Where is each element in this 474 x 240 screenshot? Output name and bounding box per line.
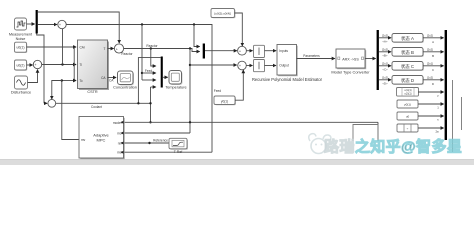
svg-text:Recursive Polynomial Model Est: Recursive Polynomial Model Estimator: [252, 77, 323, 82]
block matrix A: [392, 34, 424, 43]
block MPC: [79, 117, 125, 160]
wire u0 offsets to sum A: [235, 13, 243, 45]
wire sum output long top line: [66, 25, 212, 153]
svg-text:mo: mo: [117, 131, 122, 135]
svg-text:Reactor: Reactor: [146, 44, 158, 48]
sum reactor noise: [114, 44, 123, 53]
svg-text:A: A: [432, 40, 434, 44]
demux Demux1: [36, 10, 38, 34]
wire feed branch x142 down: [141, 25, 143, 81]
wire estimator output y65: [190, 64, 237, 66]
svg-text:<A>: <A>: [382, 39, 387, 43]
constant u0(1): [15, 42, 28, 53]
svg-text:Tc: Tc: [80, 79, 84, 83]
wire noise2 to sum CAi: [38, 24, 57, 26]
wire sum A to block: [246, 50, 252, 52]
svg-text:[2x1]: [2x1]: [427, 61, 433, 65]
labels mux2 wires: [427, 33, 434, 86]
block conv2: [254, 60, 265, 72]
wire md to MPC: [125, 151, 213, 153]
svg-text:u0(1): u0(1): [17, 46, 25, 50]
wire vertical x74 CAi-Tc link: [73, 47, 75, 81]
wire coolant detour around mux: [138, 58, 161, 104]
block Disturbance sine: [11, 76, 31, 95]
block matrix B: [392, 48, 424, 57]
mux Mux2: [445, 30, 447, 140]
mux bar2: [203, 44, 205, 59]
svg-text:[2x2]: [2x2]: [382, 48, 388, 52]
svg-text:model: model: [113, 121, 122, 125]
wire coolant sum output: [56, 102, 151, 104]
wire x142 to mux in2: [142, 72, 156, 74]
block T Ref: [169, 138, 188, 154]
wire sum to CSTR Ti: [42, 64, 76, 66]
svg-text:Feed: Feed: [145, 69, 152, 73]
svg-text:路瑞之知乎@智多星: 路瑞之知乎@智多星: [324, 138, 462, 156]
block Measurement Noise: [9, 18, 33, 41]
svg-text:[2x2]: [2x2]: [427, 47, 433, 51]
svg-text:CAi: CAi: [80, 45, 85, 49]
block c2-2: [397, 100, 418, 108]
svg-text:<C>: <C>: [382, 67, 388, 71]
watermark logo: [309, 134, 331, 154]
sum coolant: [48, 99, 56, 107]
sum CAi noise: [58, 20, 66, 28]
bottom gray band: [0, 160, 474, 166]
wire Tc branch into coolant sum top: [52, 81, 62, 99]
svg-text:C: C: [432, 68, 434, 72]
svg-text:Feed: Feed: [214, 89, 221, 93]
block Recursive Polynomial Model Estimator: [252, 45, 323, 83]
wire mux1 to temperature scope: [163, 76, 168, 78]
svg-text:T: T: [104, 47, 106, 51]
node top line x142: [141, 23, 143, 25]
wire mv trunk: [62, 81, 79, 140]
block Model Type Converter: [331, 49, 370, 74]
svg-text:Reactor: Reactor: [121, 52, 133, 56]
sum B: [238, 61, 247, 70]
wire MPC model port long line: [124, 121, 378, 123]
wires c2 blocks to mux2: [418, 92, 444, 128]
svg-text:y0(1): y0(1): [221, 100, 228, 104]
node on CAi wire: [73, 46, 75, 48]
svg-text:Model Type Converter: Model Type Converter: [331, 69, 370, 74]
wire converter to demux2: [365, 58, 376, 60]
svg-text:+: +: [35, 63, 37, 67]
svg-text:u(2)(1): u(2)(1): [404, 93, 411, 96]
wire Tc into CSTR: [62, 80, 76, 82]
wire mo vertical x190: [189, 49, 191, 134]
wire noise to demux: [27, 23, 35, 25]
svg-text:+: +: [59, 23, 61, 27]
wire conv1 to estimator: [265, 50, 276, 52]
svg-text:Ti: Ti: [80, 63, 83, 67]
svg-text:[2x2]: [2x2]: [427, 33, 433, 37]
svg-text:u0(2): u0(2): [17, 63, 25, 67]
wire noise1 top to sum1: [38, 12, 119, 39]
svg-text:Concentration: Concentration: [113, 86, 137, 90]
sum A: [238, 46, 247, 55]
wires demux2 to blocks: [379, 38, 391, 80]
wire u0(1) to CSTR CAi: [27, 46, 77, 48]
scope Concentration: [113, 71, 137, 90]
wire reactor branch to mux in1: [151, 49, 155, 67]
wire noise branch x194 to bar2: [194, 25, 199, 47]
block c2-4: [397, 124, 418, 132]
svg-text:Output: Output: [279, 63, 289, 67]
svg-text:Coolant: Coolant: [91, 105, 102, 109]
svg-text:ref: ref: [118, 141, 122, 145]
wire CSTR CA to scope: [108, 77, 117, 79]
demux Demux2: [377, 30, 379, 90]
block c2-1 display: [397, 88, 419, 97]
wire mux2 out right: [452, 80, 454, 152]
svg-text:mv: mv: [81, 138, 86, 142]
svg-text:u0: u0: [406, 115, 410, 119]
svg-text:状态 A: 状态 A: [401, 35, 414, 41]
svg-text:[u0(2);u0(4)]: [u0(2);u0(4)]: [214, 12, 231, 16]
wire CSTR T to sum: [108, 48, 114, 50]
constant u0 offsets: [211, 9, 236, 19]
svg-text:[2x1]: [2x1]: [382, 62, 388, 66]
svg-text:2a: 2a: [435, 130, 439, 134]
block bottom scope outline: [353, 125, 378, 142]
svg-text:<D>: <D>: [382, 81, 388, 85]
svg-text:[1x2]: [1x2]: [427, 75, 433, 79]
svg-text:MPC: MPC: [97, 137, 106, 142]
wire x142 to mux in3: [142, 79, 156, 81]
wire u0(2) to sum Ti: [27, 64, 33, 66]
wire noise3 down left: [37, 34, 44, 104]
node Ti branch: [61, 63, 63, 65]
svg-text:CSTR: CSTR: [87, 90, 98, 94]
svg-text:md: md: [117, 151, 122, 155]
wire disturbance to sum Ti: [28, 71, 38, 83]
svg-text:+: +: [239, 49, 241, 53]
node reactor x189: [189, 47, 191, 49]
svg-text:y0(1): y0(1): [404, 103, 411, 107]
wire sum B to block: [246, 65, 252, 67]
svg-text:状态 D: 状态 D: [401, 77, 414, 83]
svg-text:Reference: Reference: [153, 138, 168, 142]
wire conv2 to estimator: [265, 65, 276, 67]
svg-text:Temperature: Temperature: [165, 86, 186, 90]
svg-text:B: B: [432, 54, 434, 58]
wire mux2 out right 2: [461, 97, 463, 130]
wire ref to MPC: [125, 142, 170, 144]
wire y0 to sum B: [235, 71, 243, 100]
mux Mux1: [161, 57, 163, 88]
svg-text:Disturbance: Disturbance: [11, 91, 31, 95]
svg-text:+: +: [239, 64, 241, 68]
svg-text:Parameters: Parameters: [303, 54, 320, 58]
constant u0(2): [15, 60, 28, 71]
scope Temperature: [165, 71, 186, 90]
svg-text:[2x2]: [2x2]: [382, 34, 388, 38]
wires blocks to mux2: [423, 38, 444, 80]
wire Ti branch up to sum CAi: [62, 29, 64, 65]
block matrix C: [392, 62, 424, 71]
svg-text:Noise: Noise: [16, 37, 26, 41]
node top line x194: [193, 23, 195, 25]
labels demux2 wires: [382, 34, 388, 86]
node reactor x150.8: [150, 47, 152, 49]
svg-text:状态 C: 状态 C: [401, 63, 414, 69]
svg-text:D: D: [432, 82, 434, 86]
block matrix D: [392, 76, 424, 85]
sum Ti: [33, 60, 41, 68]
wire reactor temperature: [124, 49, 199, 52]
wire bar2 out to sum A: [205, 50, 237, 52]
wire coolant vertical x150.5: [150, 87, 152, 122]
block y0: [214, 96, 236, 105]
wire down x378: [377, 122, 379, 141]
block conv1: [254, 45, 265, 57]
wire coolant branch to mux in4: [151, 86, 156, 88]
svg-text:<B>: <B>: [382, 53, 387, 57]
labels c2 wires: [435, 94, 439, 134]
svg-text:+: +: [116, 47, 118, 51]
block c2-3: [397, 112, 418, 120]
svg-text:状态 B: 状态 B: [401, 49, 414, 55]
svg-text:[1x2]: [1x2]: [382, 76, 388, 80]
wire estimator to converter: [297, 58, 335, 60]
wire MPC mo port: [124, 132, 190, 134]
svg-text:Inputs: Inputs: [279, 49, 288, 53]
svg-text:ARX ->SS: ARX ->SS: [342, 57, 359, 61]
block CSTR: [78, 40, 110, 94]
